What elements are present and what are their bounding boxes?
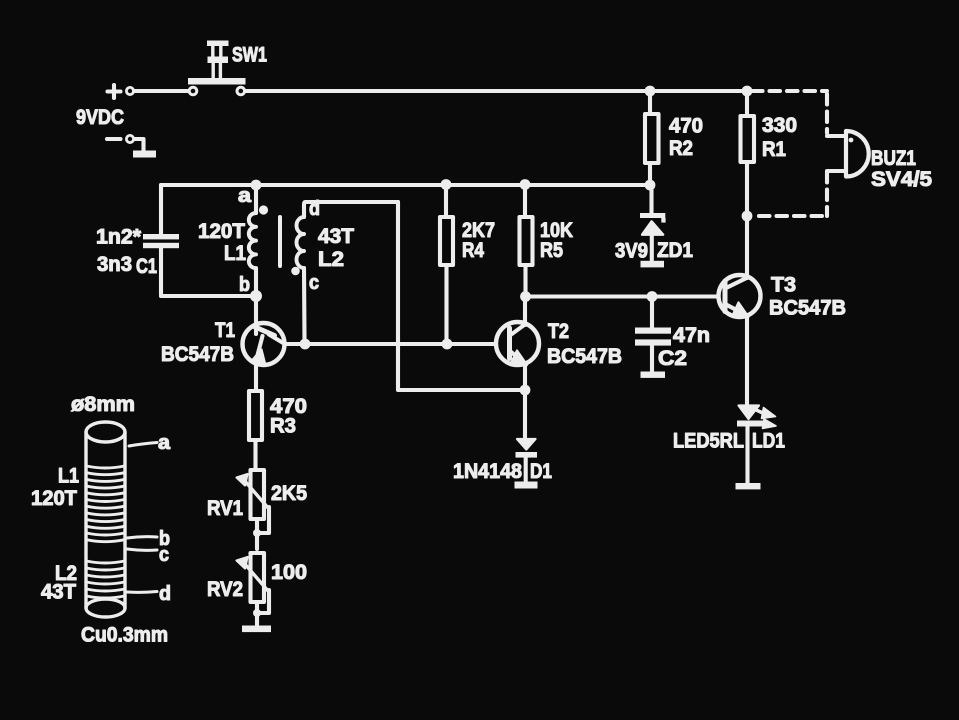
node c tap dot (291, 267, 300, 276)
wire base rail T3 (526, 294, 719, 298)
resistor R3 (249, 391, 262, 470)
coil tap a (129, 443, 157, 447)
node RV2 bottom junction (253, 609, 261, 617)
svg-text:R5: R5 (540, 239, 563, 262)
node R5 top (520, 179, 531, 190)
svg-text:470: 470 (669, 115, 703, 138)
wire top rail (246, 89, 748, 93)
svg-text:1N4148: 1N4148 (453, 460, 522, 483)
wire second rail (161, 183, 650, 187)
svg-text:L2: L2 (318, 248, 344, 271)
node b junction (250, 290, 262, 302)
battery negative terminal (107, 135, 156, 157)
svg-text:ø8mm: ø8mm (71, 393, 135, 416)
svg-text:SV4/5: SV4/5 (871, 168, 932, 191)
capacitor C2 (635, 301, 671, 378)
svg-text:BC547B: BC547B (161, 343, 234, 366)
node RV1 RV2 junction (253, 529, 261, 537)
transistor T1 (243, 296, 285, 391)
coil L2 winding (87, 561, 125, 598)
svg-text:D1: D1 (530, 460, 552, 483)
svg-text:LED5RL: LED5RL (673, 430, 744, 453)
svg-text:3n3: 3n3 (97, 253, 132, 276)
node R4 top (441, 179, 452, 190)
diode D1 (515, 439, 538, 489)
coil tap d (127, 590, 157, 594)
svg-text:1n2*: 1n2* (96, 226, 142, 249)
resistor R2 (645, 96, 659, 180)
svg-text:a: a (238, 185, 252, 207)
svg-text:L1: L1 (224, 242, 246, 265)
potentiometer RV2 (237, 553, 272, 632)
node R5 bottom (520, 291, 531, 302)
capacitor C1 (143, 185, 251, 296)
dashed buzzer box (752, 91, 827, 216)
svg-text:d: d (309, 198, 320, 220)
transformer core (278, 217, 282, 266)
transistor T2 (496, 297, 539, 438)
node ZD1 bottom rail (647, 291, 658, 302)
svg-text:T1: T1 (215, 319, 235, 342)
svg-text:2K5: 2K5 (271, 482, 307, 505)
svg-text:43T: 43T (318, 225, 354, 248)
svg-text:a: a (158, 432, 171, 454)
node T2 emitter junction (520, 385, 531, 396)
node R2 bottom (645, 180, 656, 191)
battery positive terminal (108, 85, 134, 98)
svg-text:9VDC: 9VDC (76, 106, 124, 129)
svg-text:T3: T3 (771, 274, 796, 297)
wire + to switch (134, 89, 188, 93)
switch SW1 (188, 41, 246, 95)
svg-text:R3: R3 (270, 415, 296, 438)
potentiometer RV1 (237, 470, 270, 549)
svg-text:3V9: 3V9 (615, 240, 648, 263)
transistor T3 (719, 216, 761, 405)
svg-text:R2: R2 (669, 137, 693, 160)
node buzzer box bottom (742, 211, 753, 222)
svg-text:SW1: SW1 (232, 44, 267, 67)
svg-text:100: 100 (271, 561, 307, 584)
svg-text:330: 330 (762, 114, 797, 137)
svg-text:120T: 120T (198, 220, 245, 243)
buzzer BUZ1 (827, 131, 869, 177)
wire L2 d to T2 emitter (398, 202, 525, 390)
inductor L2 (297, 202, 398, 339)
node a tap dot (259, 205, 268, 214)
svg-text:R1: R1 (762, 138, 786, 161)
wire T1 collector line (285, 342, 497, 346)
svg-text:LD1: LD1 (752, 430, 785, 453)
resistor R4 (440, 189, 453, 339)
svg-text:ZD1: ZD1 (657, 239, 693, 262)
svg-text:C2: C2 (658, 347, 687, 370)
inductor L1 (249, 190, 256, 291)
LED LD1 (736, 406, 777, 490)
coil L1 winding (87, 466, 125, 542)
node L1 top (251, 180, 262, 191)
coil former cylinder (86, 422, 125, 617)
svg-text:BC547B: BC547B (547, 345, 622, 368)
svg-text:R4: R4 (462, 239, 484, 262)
zener diode ZD1 (640, 190, 666, 267)
svg-text:b: b (239, 274, 250, 296)
svg-text:Cu0.3mm: Cu0.3mm (81, 624, 168, 647)
svg-text:C1: C1 (136, 255, 157, 278)
svg-text:RV2: RV2 (207, 578, 243, 601)
svg-text:47n: 47n (673, 324, 710, 347)
node R1 top (742, 86, 753, 97)
resistor R1 (741, 96, 755, 211)
resistor R5 (520, 189, 533, 292)
coil tap c (127, 549, 157, 550)
svg-text:RV1: RV1 (207, 497, 243, 520)
svg-text:T2: T2 (548, 320, 569, 343)
svg-text:BC547B: BC547B (769, 297, 846, 320)
svg-text:BUZ1: BUZ1 (871, 147, 916, 170)
svg-text:c: c (159, 544, 169, 566)
svg-text:d: d (159, 583, 171, 605)
node L2 c junction (300, 339, 311, 350)
svg-text:43T: 43T (41, 581, 76, 604)
node R4 bottom (442, 339, 453, 350)
node R2 top (645, 86, 656, 97)
coil tap b (127, 537, 157, 538)
svg-text:120T: 120T (31, 487, 77, 510)
svg-text:L1: L1 (58, 465, 79, 488)
svg-text:c: c (309, 272, 319, 294)
